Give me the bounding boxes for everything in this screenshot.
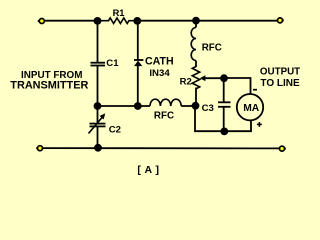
node junction C3 at bottom loop <box>220 127 228 135</box>
wire RFC vertical branch upper <box>195 21 197 28</box>
wire wiper junction to meter top <box>224 78 251 94</box>
node junction top rail / diode branch <box>133 17 141 25</box>
label C2 <box>109 124 121 135</box>
output terminal bottom right <box>280 146 286 151</box>
wire top rail right segment <box>137 20 278 22</box>
wire C2 branch lower <box>97 127 99 148</box>
svg-text:TO LINE: TO LINE <box>260 78 300 89</box>
meter minus polarity mark <box>253 89 257 91</box>
wire R2 lower to node row <box>195 88 197 107</box>
node junction top rail / C1 branch <box>94 17 102 25</box>
wire C3 branch lower <box>223 107 225 131</box>
wire C3 branch upper <box>223 78 225 102</box>
label OUTPUT <box>260 67 300 78</box>
svg-text:[ A ]: [ A ] <box>137 164 159 176</box>
label TO LINE <box>260 78 300 89</box>
input terminal bottom left <box>36 146 42 151</box>
svg-text:TRANSMITTER: TRANSMITTER <box>10 80 88 92</box>
wire C2 branch upper <box>97 106 99 123</box>
label C1 <box>106 58 119 69</box>
input terminal top left <box>38 19 45 24</box>
svg-text:MA: MA <box>243 103 260 114</box>
node junction top rail / RFC branch <box>192 17 200 25</box>
output terminal top right <box>278 18 284 23</box>
label TRANSMITTER <box>10 80 88 92</box>
svg-text:IN34: IN34 <box>149 68 170 79</box>
svg-text:RFC: RFC <box>202 42 222 53</box>
wire top rail left segment <box>43 20 97 22</box>
wire diode branch lower <box>137 66 139 106</box>
resistor R1 <box>97 18 138 24</box>
svg-text:C1: C1 <box>106 58 119 69</box>
wire between RFC vertical and R2 <box>195 61 197 68</box>
label MA <box>243 103 260 114</box>
variable capacitor C2 plates <box>90 124 106 127</box>
label IN34 <box>149 68 170 79</box>
wire output loop: node row down, bottom, up to meter <box>195 106 251 131</box>
meter MA circle <box>237 94 263 120</box>
label R1 <box>113 8 125 18</box>
label INPUT FROM <box>21 70 82 81</box>
node junction bottom rail / C2 branch <box>94 144 102 152</box>
label RFC horizontal <box>154 111 174 122</box>
label RFC vertical <box>202 42 222 53</box>
svg-text:C3: C3 <box>202 103 214 114</box>
inductor RFC horizontal <box>150 99 181 106</box>
potentiometer R2 element <box>192 67 199 89</box>
svg-text:OUTPUT: OUTPUT <box>260 67 300 78</box>
wire node row left segment <box>98 105 151 107</box>
svg-text:CATH: CATH <box>145 56 174 68</box>
node junction wiper / C3 / meter <box>220 74 228 82</box>
svg-text:R2: R2 <box>180 77 192 88</box>
inductor RFC vertical <box>191 28 196 61</box>
variable capacitor C2 arrow <box>89 113 106 133</box>
label C3 <box>202 103 214 114</box>
node junction C1/C2 branch at node row <box>94 102 102 110</box>
svg-text:RFC: RFC <box>154 111 174 122</box>
wire bottom rail <box>42 147 280 149</box>
label CATH <box>145 56 174 68</box>
node junction at node row / R2 branch <box>192 102 200 110</box>
svg-text:C2: C2 <box>109 124 121 135</box>
label ( A ) <box>137 164 159 176</box>
node junction diode branch at node row <box>134 102 142 110</box>
capacitor C3 <box>218 102 231 107</box>
diode IN34 cathode bar <box>134 59 143 61</box>
wire C1 branch lower <box>97 66 99 106</box>
svg-text:R1: R1 <box>113 8 125 18</box>
wire diode branch upper <box>137 21 139 60</box>
meter plus polarity mark <box>257 122 262 127</box>
diode IN34 anode triangle <box>134 61 142 67</box>
label R2 <box>180 77 192 88</box>
potentiometer R2 wiper arrow <box>200 75 224 81</box>
wire C1 branch upper <box>97 21 99 63</box>
wire node row right segment <box>181 105 195 107</box>
capacitor C1 <box>91 63 106 66</box>
